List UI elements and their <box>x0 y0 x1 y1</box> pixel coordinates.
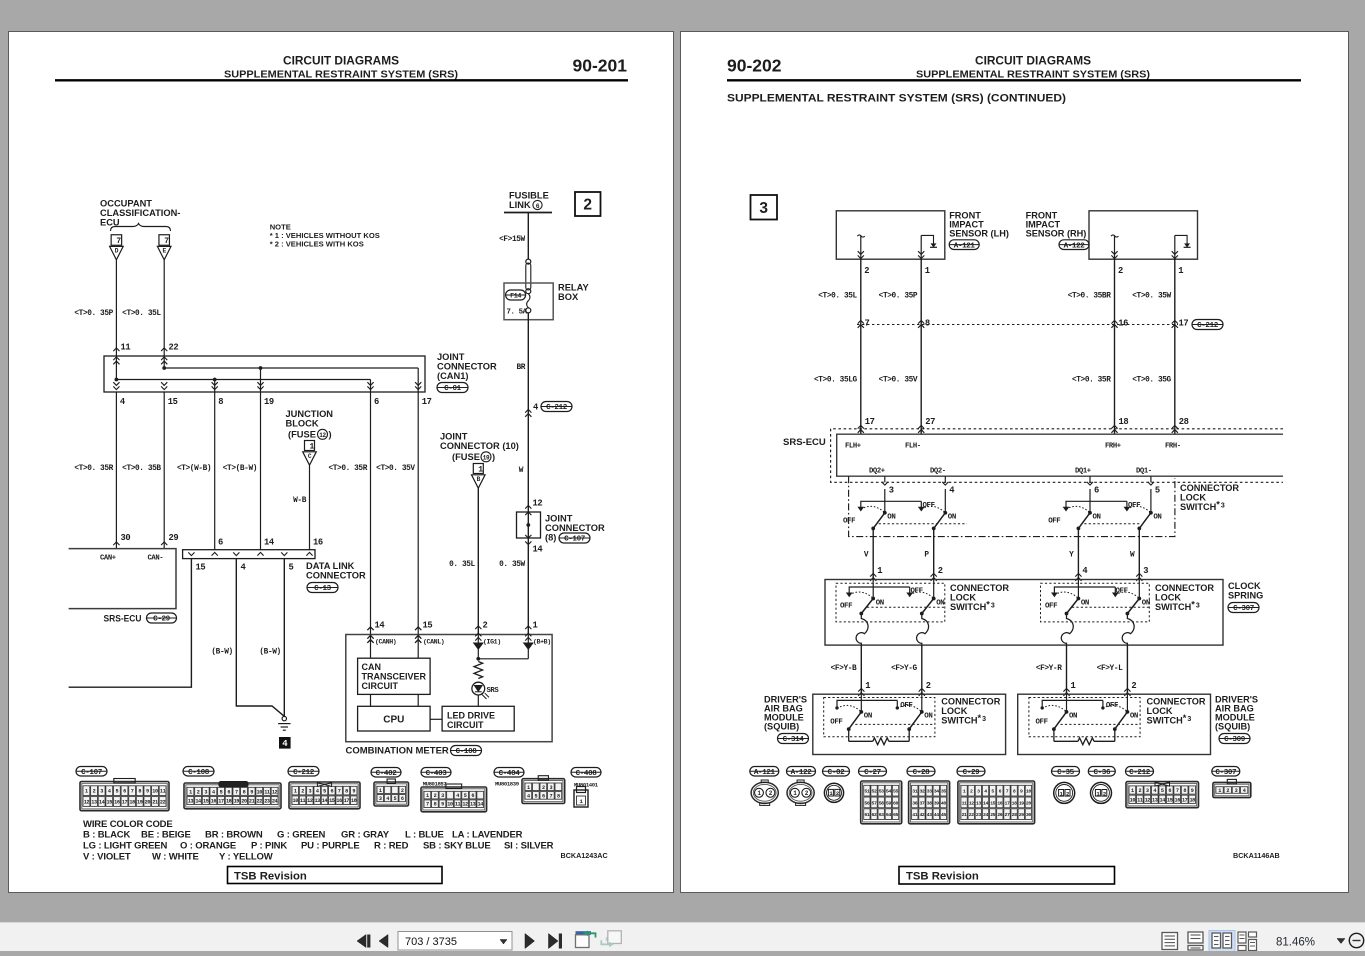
connector C-212 code <box>288 767 319 777</box>
svg-text:13: 13 <box>314 798 320 804</box>
svg-text:21: 21 <box>962 812 967 818</box>
CAN1 internal bus 2 <box>116 379 370 381</box>
CAN1 internal bus 1 <box>164 367 418 369</box>
svg-text:7: 7 <box>1176 788 1179 794</box>
connector C-107 code <box>76 767 107 777</box>
svg-text:C-108: C-108 <box>188 769 210 777</box>
svg-text:2: 2 <box>93 789 96 795</box>
svg-text:CONNECTOR (10): CONNECTOR (10) <box>440 441 519 451</box>
svg-text:FLH+: FLH+ <box>845 443 861 451</box>
svg-text:2: 2 <box>1131 681 1136 691</box>
svg-text:22: 22 <box>969 812 974 818</box>
svg-text:2: 2 <box>938 566 943 576</box>
data link connector box <box>183 550 315 559</box>
svg-text:5: 5 <box>1161 788 1164 794</box>
svg-text:8: 8 <box>434 802 437 808</box>
switch OFF rail bar <box>1054 587 1115 593</box>
svg-text:4: 4 <box>1243 788 1246 794</box>
svg-text:<T>0. 35B: <T>0. 35B <box>122 465 161 473</box>
CAN1 bottom pin 19 arrows <box>257 386 263 389</box>
svg-text:9: 9 <box>250 789 253 795</box>
svg-text:10: 10 <box>1026 789 1031 795</box>
svg-text:3: 3 <box>549 785 552 791</box>
svg-text:<T>(W-B): <T>(W-B) <box>177 465 211 473</box>
svg-text:4: 4 <box>1082 566 1088 576</box>
occupant ECU pin 7 (right) square <box>159 235 170 246</box>
svg-text:44: 44 <box>934 812 939 818</box>
svg-text:20: 20 <box>1026 800 1031 806</box>
squib inner dashed box <box>1029 698 1140 737</box>
svg-text:BR : BROWN: BR : BROWN <box>205 830 263 841</box>
svg-text:27: 27 <box>1004 812 1009 818</box>
svg-text:7: 7 <box>164 237 169 246</box>
fuse F14 element <box>527 294 531 308</box>
connector C-35 code <box>1052 767 1080 777</box>
meter pin 15 (CANL) <box>415 627 421 630</box>
svg-text:FUSIBLE: FUSIBLE <box>509 191 549 201</box>
svg-text:OFF: OFF <box>1048 518 1060 526</box>
svg-text:A-121: A-121 <box>754 769 776 777</box>
svg-text:31: 31 <box>912 789 917 795</box>
connector C-28 drawing <box>909 781 950 824</box>
svg-text:CLASSIFICATION-: CLASSIFICATION- <box>100 208 180 218</box>
svg-text:CONNECTOR: CONNECTOR <box>545 523 605 533</box>
svg-text:A-122: A-122 <box>1064 242 1086 250</box>
CAN1 bottom pin 4 arrows <box>113 386 119 389</box>
svg-text:2: 2 <box>864 266 869 276</box>
switch blade left (ON) <box>871 597 875 601</box>
wire LED to LED drive circuit <box>477 695 479 706</box>
svg-text:(SQUIB): (SQUIB) <box>1215 722 1250 732</box>
svg-text:TRANSCEIVER: TRANSCEIVER <box>362 672 427 682</box>
svg-text:CONNECTOR: CONNECTOR <box>1155 583 1214 593</box>
DLC bottom pin 15 <box>188 552 194 555</box>
svg-text:90-202: 90-202 <box>727 56 782 76</box>
svg-text:19: 19 <box>264 397 274 407</box>
svg-text:OFF: OFF <box>1106 702 1118 710</box>
svg-text:41: 41 <box>912 812 917 818</box>
svg-text:CONNECTOR: CONNECTOR <box>950 583 1009 593</box>
header rule <box>55 79 628 81</box>
squib resistor element <box>1053 729 1055 741</box>
svg-text:13: 13 <box>470 802 476 808</box>
svg-text:LED DRIVE: LED DRIVE <box>447 711 495 721</box>
svg-text:13: 13 <box>1152 797 1158 803</box>
svg-text:OFF: OFF <box>843 518 855 526</box>
svg-text:12: 12 <box>84 800 90 806</box>
switch OFF rail bar <box>1066 501 1127 507</box>
svg-text:(CANL): (CANL) <box>423 639 444 646</box>
wire joint connector 10 to meter IG1 (0.35L) <box>477 488 479 634</box>
svg-text:W : WHITE: W : WHITE <box>152 852 199 863</box>
svg-text:15: 15 <box>990 800 995 806</box>
svg-text:3: 3 <box>1235 788 1238 794</box>
svg-text:24: 24 <box>272 798 278 804</box>
wire transceiver to CPU (left) <box>370 694 372 706</box>
switch blade right (ON) <box>1126 710 1130 714</box>
svg-text:OCCUPANT: OCCUPANT <box>100 199 152 209</box>
svg-text:11: 11 <box>962 800 967 806</box>
svg-text:28: 28 <box>1012 812 1017 818</box>
wire DLC pin5 to ground (B-W) <box>283 559 285 717</box>
relay box <box>504 283 553 320</box>
svg-text:90-201: 90-201 <box>573 56 628 76</box>
svg-text:SRS: SRS <box>487 687 500 695</box>
svg-text:<T>0. 35V: <T>0. 35V <box>879 377 918 385</box>
svg-text:1: 1 <box>793 790 797 797</box>
svg-text:OFF: OFF <box>1116 588 1128 596</box>
svg-text:SWITCH*3: SWITCH*3 <box>1147 713 1192 726</box>
svg-text:16: 16 <box>313 538 323 548</box>
svg-text:FRH-: FRH- <box>1165 443 1181 451</box>
svg-text:30: 30 <box>1026 812 1031 818</box>
svg-text:1: 1 <box>85 789 88 795</box>
svg-text:W: W <box>519 467 524 475</box>
diode on IG1 line <box>477 635 479 659</box>
joint connector 10 pin 1 square <box>473 464 483 474</box>
svg-text:5: 5 <box>464 793 467 799</box>
svg-text:17: 17 <box>344 798 350 804</box>
svg-text:): ) <box>492 452 495 462</box>
svg-text:53: 53 <box>879 789 884 795</box>
svg-text:15: 15 <box>423 621 433 631</box>
wire pin19 to data link connector pin 14 <box>260 392 262 550</box>
svg-text:2: 2 <box>926 681 931 691</box>
connector C-29 code <box>957 767 985 777</box>
svg-text:21: 21 <box>249 798 255 804</box>
svg-text:39: 39 <box>934 800 939 806</box>
svg-text:16: 16 <box>114 800 120 806</box>
svg-text:W-B: W-B <box>293 497 307 505</box>
svg-text:4: 4 <box>316 789 319 795</box>
svg-text:3: 3 <box>204 789 207 795</box>
svg-text:54: 54 <box>886 789 891 795</box>
connector C-307 code <box>1212 767 1240 777</box>
row1 inner dashed outline right <box>1084 523 1141 525</box>
wire pin8 to data link connector pin 6 <box>214 392 216 550</box>
switch blade left (ON) <box>883 511 887 515</box>
svg-text:L : BLUE: L : BLUE <box>405 830 444 841</box>
svg-text:3: 3 <box>889 486 894 496</box>
svg-text:13: 13 <box>976 800 981 806</box>
connector C-212 drawing (page2) <box>1126 782 1199 808</box>
switch blade left (ON) <box>859 710 863 714</box>
row1 inner dashed outline left <box>879 523 967 525</box>
svg-text:14: 14 <box>195 798 201 804</box>
svg-text:DQ2+: DQ2+ <box>869 468 885 476</box>
junction IG1/B+B <box>478 658 528 660</box>
svg-text:12: 12 <box>307 798 313 804</box>
svg-text:15: 15 <box>203 798 209 804</box>
svg-text:C-212: C-212 <box>1197 322 1219 330</box>
svg-text:6: 6 <box>401 796 404 802</box>
svg-text:18: 18 <box>226 798 232 804</box>
svg-text:1: 1 <box>379 788 382 794</box>
svg-text:12: 12 <box>272 789 278 795</box>
svg-text:<T>0. 35W: <T>0. 35W <box>1132 293 1171 301</box>
CAN1 bottom pin 8 arrows <box>212 386 218 389</box>
svg-text:SWITCH*3: SWITCH*3 <box>941 713 986 726</box>
svg-text:5: 5 <box>116 789 119 795</box>
front impact sensor (LH) box A-121 <box>836 211 945 259</box>
svg-text:C-13: C-13 <box>314 585 331 593</box>
meter pin 14 (CANH) <box>367 627 373 630</box>
occupant ECU connector D triangle <box>110 246 124 259</box>
svg-text:SUPPLEMENTAL RESTRAINT SYSTEM: SUPPLEMENTAL RESTRAINT SYSTEM (SRS) <box>224 70 458 81</box>
svg-text:2: 2 <box>1138 788 1141 794</box>
svg-text:<T>0. 35L: <T>0. 35L <box>122 310 161 318</box>
svg-text:(B-W): (B-W) <box>259 649 280 657</box>
svg-text:<T>0. 35LG: <T>0. 35LG <box>814 377 858 385</box>
wire pin6 to combination meter CANH <box>370 392 372 635</box>
DLC bottom pin 5 <box>281 552 287 555</box>
svg-text:703 / 3735: 703 / 3735 <box>405 936 457 948</box>
svg-text:1: 1 <box>527 785 530 791</box>
resistor (LED series) <box>474 662 483 679</box>
svg-text:CONNECTOR: CONNECTOR <box>1147 697 1206 707</box>
svg-text:SUPPLEMENTAL RESTRAINT SYSTEM: SUPPLEMENTAL RESTRAINT SYSTEM (SRS) <box>916 70 1150 81</box>
svg-text:(CANH): (CANH) <box>375 639 396 646</box>
wire switch input left <box>1077 580 1079 599</box>
junction block connector C triangle <box>303 452 317 465</box>
svg-text:<T>0. 35BR: <T>0. 35BR <box>1068 293 1112 301</box>
svg-text:5: 5 <box>323 789 326 795</box>
svg-text:CAN+: CAN+ <box>100 555 116 563</box>
svg-text:65: 65 <box>893 812 898 818</box>
svg-text:22: 22 <box>160 800 166 806</box>
svg-text:16: 16 <box>997 800 1002 806</box>
joint connector (8) pin 14 <box>525 535 531 538</box>
svg-text:2: 2 <box>542 785 545 791</box>
svg-text:BE : BEIGE: BE : BEIGE <box>141 830 191 841</box>
svg-text:15: 15 <box>1167 797 1173 803</box>
CAN1 bottom pin 15 arrows <box>161 386 167 389</box>
svg-text:0. 35W: 0. 35W <box>499 561 525 569</box>
svg-text:4: 4 <box>386 796 389 802</box>
wire CPU to LED drive circuit <box>430 718 442 720</box>
clock spring pins 1/2/4/3 <box>870 573 876 576</box>
squib pins 1/2/1/2 <box>858 688 864 691</box>
svg-text:<F>Y-G: <F>Y-G <box>891 665 917 673</box>
sensor pin 1 arrows <box>918 255 924 258</box>
connector C-212 drawing <box>289 782 360 809</box>
svg-text:17: 17 <box>422 397 432 407</box>
connector C-27 code <box>859 767 887 777</box>
clock spring inner dashed box left <box>836 583 945 622</box>
svg-text:SRS-ECU: SRS-ECU <box>783 437 826 448</box>
junction block pin 1 square <box>305 441 315 451</box>
toolbar next-page button <box>525 934 535 949</box>
connector code C-29 <box>147 613 177 623</box>
sensor pin 2 arrows <box>858 255 864 258</box>
svg-text:4: 4 <box>527 793 530 799</box>
SRS-ECU box (left, open-left) <box>69 549 176 609</box>
svg-text:29: 29 <box>1019 812 1024 818</box>
connector C-408 code <box>571 768 601 778</box>
svg-text:DATA LINK: DATA LINK <box>306 561 355 571</box>
wire switch input left <box>860 694 862 712</box>
svg-text:21: 21 <box>152 800 158 806</box>
svg-text:C-29: C-29 <box>153 616 170 624</box>
svg-text:<T>0. 35G: <T>0. 35G <box>1132 377 1171 385</box>
sensor internal element left pin <box>1114 235 1116 259</box>
svg-text:ON: ON <box>924 713 932 721</box>
svg-text:C-212: C-212 <box>293 769 315 777</box>
brace over occupant ECU connectors <box>111 224 171 232</box>
svg-text:4: 4 <box>108 789 111 795</box>
svg-text:13: 13 <box>91 800 97 806</box>
inline connector C-212 pin 4 <box>525 409 531 412</box>
TSB Revision box <box>228 867 443 884</box>
svg-text:6: 6 <box>1094 486 1099 496</box>
svg-text:ON: ON <box>1093 514 1101 522</box>
svg-text:P : PINK: P : PINK <box>251 841 287 852</box>
svg-text:11: 11 <box>1137 797 1143 803</box>
svg-text:Y: Y <box>1069 552 1074 560</box>
svg-text:BR: BR <box>516 364 525 372</box>
sensor internal element left pin <box>860 235 862 259</box>
wire junction block to DLC pin 16 (W-B) <box>309 465 311 550</box>
TSB Revision box (page2) <box>899 867 1115 885</box>
wire switch input right <box>1138 580 1140 599</box>
switch OFF rail bar <box>1042 700 1103 706</box>
svg-text:8: 8 <box>925 319 930 329</box>
svg-text:18: 18 <box>129 800 135 806</box>
header rule <box>727 79 1301 81</box>
connector C-28 code <box>907 767 935 777</box>
svg-text:C-35: C-35 <box>1057 769 1074 777</box>
svg-text:CAN: CAN <box>362 662 382 672</box>
svg-text:C-307: C-307 <box>1215 769 1237 777</box>
C-212 pin 8 <box>918 320 924 323</box>
connector C-402 drawing <box>374 782 409 806</box>
svg-text:ON: ON <box>948 514 956 522</box>
svg-text:1: 1 <box>1071 681 1076 691</box>
wire pin15 to SRS-ECU pin 29 <box>163 392 165 549</box>
svg-text:(FUSE: (FUSE <box>288 430 316 440</box>
wire switch input right <box>1150 489 1152 513</box>
svg-text:LG : LIGHT GREEN: LG : LIGHT GREEN <box>83 841 167 852</box>
toolbar last-page button <box>549 934 559 949</box>
inline connector C-212 dotted line <box>857 324 1178 326</box>
svg-text:C-307: C-307 <box>1233 605 1255 613</box>
connector A-122 drawing <box>787 782 814 803</box>
svg-text:C-404: C-404 <box>499 770 521 778</box>
svg-text:7: 7 <box>426 802 429 808</box>
svg-text:C-01: C-01 <box>444 385 461 393</box>
svg-text:C-212: C-212 <box>1129 769 1151 777</box>
occupant ECU pin 7 (left) square <box>111 235 122 246</box>
svg-text:3: 3 <box>1146 788 1149 794</box>
svg-text:11: 11 <box>121 343 131 353</box>
wire switch input left <box>872 580 874 599</box>
svg-text:JOINT: JOINT <box>440 432 468 442</box>
svg-text:12: 12 <box>319 432 326 439</box>
svg-text:OFF: OFF <box>840 603 852 611</box>
svg-text:(8): (8) <box>545 533 556 543</box>
svg-text:28: 28 <box>1179 417 1189 427</box>
svg-text:3: 3 <box>759 200 768 217</box>
svg-text:C-107: C-107 <box>81 769 103 777</box>
wire switch input left <box>884 489 886 513</box>
connector A-121 drawing <box>751 782 778 803</box>
svg-text:C-107: C-107 <box>564 536 586 544</box>
svg-text:43: 43 <box>927 812 932 818</box>
svg-text:TSB Revision: TSB Revision <box>234 871 307 883</box>
svg-text:27: 27 <box>925 417 935 427</box>
svg-text:29: 29 <box>169 533 179 543</box>
svg-text:19: 19 <box>234 798 240 804</box>
svg-text:10: 10 <box>1130 797 1136 803</box>
wire relay box to meter B+B (BR) <box>527 313 529 635</box>
SRS-ECU DQ pin stubs <box>884 476 886 482</box>
svg-text:): ) <box>329 430 332 440</box>
svg-text:SENSOR (LH): SENSOR (LH) <box>949 229 1009 239</box>
svg-text:CPU: CPU <box>383 714 404 725</box>
C-212 pin 7 <box>858 320 864 323</box>
ground marker 4 (black square) <box>279 737 291 749</box>
ground symbol <box>282 716 286 720</box>
svg-text:2: 2 <box>1226 788 1229 794</box>
svg-text:32: 32 <box>919 789 924 795</box>
svg-text:JOINT: JOINT <box>545 514 573 524</box>
toolbar page number box 703 / 3735 <box>398 932 512 951</box>
svg-text:4: 4 <box>241 563 247 573</box>
svg-text:1: 1 <box>310 443 315 452</box>
svg-text:R : RED: R : RED <box>374 841 409 852</box>
svg-text:C-408: C-408 <box>576 770 598 778</box>
connector C-408 drawing <box>574 790 588 807</box>
svg-text:25: 25 <box>990 812 995 818</box>
svg-text:V : VIOLET: V : VIOLET <box>83 852 131 863</box>
DLC bottom pin 4 <box>233 552 239 555</box>
ref box 2 <box>575 192 601 216</box>
CAN transceiver circuit box <box>358 658 431 694</box>
svg-text:22: 22 <box>257 798 263 804</box>
svg-text:5: 5 <box>1155 486 1160 496</box>
svg-text:OFF: OFF <box>1128 502 1140 510</box>
occupant ECU connector E triangle <box>157 246 171 259</box>
svg-text:15: 15 <box>196 563 206 573</box>
svg-text:TSB Revision: TSB Revision <box>906 871 979 883</box>
svg-text:2: 2 <box>1118 266 1123 276</box>
connector code C-13 <box>307 583 338 593</box>
connector C-212 code (page2) <box>1126 767 1154 777</box>
clock spring coils <box>856 614 868 646</box>
svg-text:14: 14 <box>264 538 275 548</box>
svg-text:2: 2 <box>805 790 809 797</box>
svg-text:C-314: C-314 <box>783 736 805 744</box>
connector C-404 code <box>494 768 524 778</box>
sensor pin 2 arrows <box>1111 255 1117 258</box>
toolbar next-view button (disabled) <box>606 937 622 941</box>
svg-text:CONNECTOR: CONNECTOR <box>941 697 1000 707</box>
svg-text:42: 42 <box>919 812 924 818</box>
svg-text:19: 19 <box>137 800 143 806</box>
svg-text:8: 8 <box>1183 788 1186 794</box>
C-212 pin 17 and code <box>1172 320 1178 323</box>
svg-text:11: 11 <box>264 789 270 795</box>
svg-text:34: 34 <box>934 789 939 795</box>
svg-text:17: 17 <box>218 798 224 804</box>
svg-text:5: 5 <box>289 563 294 573</box>
svg-text:45: 45 <box>941 812 946 818</box>
wire switch input right <box>944 489 946 513</box>
svg-text:LOCK: LOCK <box>941 706 967 716</box>
switch blade right (ON) <box>1149 511 1153 515</box>
svg-text:40: 40 <box>941 800 946 806</box>
svg-text:14: 14 <box>322 798 328 804</box>
